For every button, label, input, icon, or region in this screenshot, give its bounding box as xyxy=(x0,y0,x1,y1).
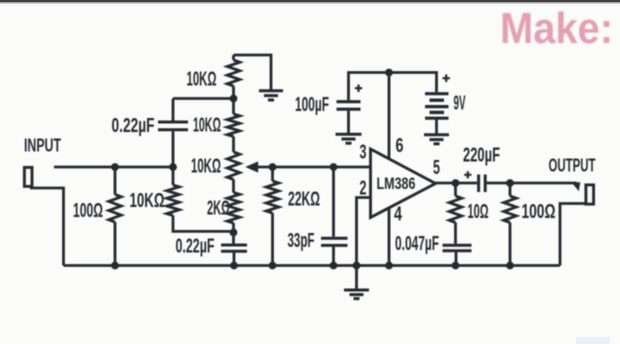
svg-text:Make:: Make: xyxy=(500,5,613,53)
resistor R 2K chain bottom xyxy=(227,193,240,224)
ground G1 xyxy=(259,89,283,92)
resistor R 10K shunt xyxy=(172,167,175,185)
input jack J1 xyxy=(24,167,32,186)
resistor R 10K pot upper xyxy=(227,114,240,137)
ground G4 below rail xyxy=(355,266,358,290)
svg-text:220µF: 220µF xyxy=(463,145,500,167)
capacitor C 0.22uF coupling xyxy=(172,99,175,121)
svg-text:22KΩ: 22KΩ xyxy=(288,189,320,211)
resistor R 100 ohm output xyxy=(509,183,512,196)
svg-text:4: 4 xyxy=(394,204,403,226)
capacitor C 220uF xyxy=(477,175,480,193)
capacitor C 100uF xyxy=(337,100,361,103)
svg-text:10Ω: 10Ω xyxy=(468,201,489,223)
output jack J2 xyxy=(586,185,594,204)
battery B1 9V xyxy=(425,92,449,95)
capacitor C 33pF xyxy=(332,167,335,237)
resistor R 22K xyxy=(271,167,274,181)
svg-text:10KΩ: 10KΩ xyxy=(130,190,165,212)
svg-text:2: 2 xyxy=(360,178,367,200)
wire: output pin5 xyxy=(436,182,478,185)
svg-text:2KΩ: 2KΩ xyxy=(207,198,230,220)
svg-text:9V: 9V xyxy=(454,93,466,115)
op-amp U1 LM386 xyxy=(371,149,436,218)
plus sign battery xyxy=(443,75,450,83)
output tip arrow xyxy=(572,182,581,191)
svg-text:0.22µF: 0.22µF xyxy=(112,115,155,137)
svg-text:3: 3 xyxy=(360,142,367,164)
resistor R 10 ohm zobel xyxy=(454,183,457,196)
svg-text:100µF: 100µF xyxy=(295,94,329,116)
ground G2 xyxy=(336,133,362,136)
resistor R 100 ohm input xyxy=(114,167,117,195)
capacitor C 0.047uF xyxy=(443,244,472,247)
svg-text:LM386: LM386 xyxy=(377,174,416,193)
svg-text:OUTPUT: OUTPUT xyxy=(549,156,596,176)
V+ top rail wire xyxy=(349,73,437,101)
capacitor C 0.22uF bottom xyxy=(221,244,247,247)
plus sign 100uF xyxy=(355,85,362,93)
wire: chain top to ground xyxy=(234,55,272,91)
svg-text:5: 5 xyxy=(433,157,440,179)
wire: output jack sleeve xyxy=(560,204,587,266)
Make: logo xyxy=(0,0,620,60)
svg-text:33pF: 33pF xyxy=(288,230,315,252)
watermark corner xyxy=(576,337,610,344)
svg-text:100Ω: 100Ω xyxy=(522,201,556,223)
svg-text:6: 6 xyxy=(396,135,404,157)
wire: pin4 to rail xyxy=(388,208,391,266)
wire: input jack sleeve to ground rail xyxy=(30,188,64,266)
svg-text:0.22µF: 0.22µF xyxy=(176,236,215,258)
plus sign 220uF xyxy=(464,171,471,178)
resistor R 10K feedback top xyxy=(232,55,235,60)
svg-text:INPUT: INPUT xyxy=(24,136,61,156)
svg-text:10KΩ: 10KΩ xyxy=(193,115,221,137)
svg-text:100Ω: 100Ω xyxy=(73,200,103,222)
ground G3 xyxy=(424,133,449,136)
svg-text:0.047µF: 0.047µF xyxy=(395,233,439,255)
svg-text:10KΩ: 10KΩ xyxy=(191,156,221,178)
wire: pin2 to ground xyxy=(357,198,371,266)
wire: pin6 to V+ rail xyxy=(388,73,391,160)
svg-text:10KΩ: 10KΩ xyxy=(187,69,217,91)
wire: top of pot chain to cap xyxy=(173,97,234,100)
resistor R 10K pot lower xyxy=(227,152,240,180)
pot wiper arrow xyxy=(257,166,371,169)
ground rail wire xyxy=(64,264,561,267)
top letterbox bar xyxy=(0,0,620,7)
wire: 10K shunt elbow to 2K junction xyxy=(173,216,234,232)
wire: input signal xyxy=(54,166,173,169)
